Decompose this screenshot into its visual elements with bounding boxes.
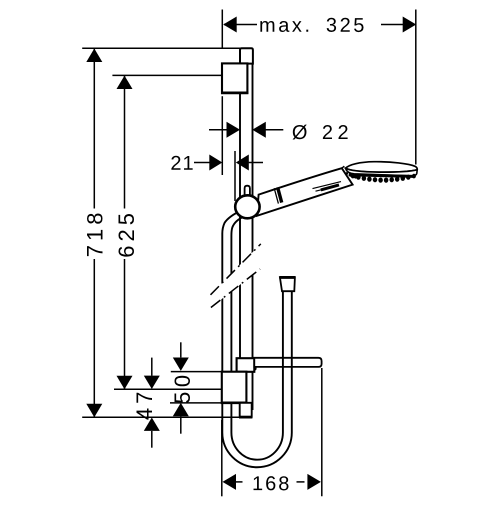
break mark dash-dot line lower	[211, 269, 260, 308]
extension line 168 left	[221, 420, 223, 496]
extension line wall plane (top)	[221, 10, 223, 49]
dimension max. 325 lines	[224, 24, 257, 26]
glide bar (168 shelf arm)	[254, 358, 321, 367]
shower hose (outer contour: left tube, U-turn, right tube)	[222, 210, 291, 468]
extension line knob left edge	[234, 151, 236, 201]
holder knob	[235, 195, 259, 218]
wall bracket top	[222, 63, 247, 93]
head neck notch	[342, 166, 345, 168]
dimension 50	[170, 342, 222, 433]
handle joint band	[274, 188, 278, 203]
dimension 47	[151, 358, 153, 448]
neck shadow wedge	[349, 173, 360, 179]
shower head side band	[346, 168, 418, 176]
extension line right at shower head	[415, 10, 417, 165]
shower head face plate (top)	[346, 162, 418, 172]
spray face nozzle row	[352, 175, 414, 177]
handle streaks near head	[313, 182, 342, 189]
hand shower handle	[257, 168, 353, 216]
rail top end cap	[240, 48, 253, 63]
rail bottom end cap	[240, 403, 252, 417]
dimension 718 arrowheads	[86, 49, 102, 63]
wall bracket bottom	[222, 372, 247, 403]
dimension 47 label	[132, 388, 157, 420]
extension line 718 bottom	[82, 416, 240, 418]
holder pin on knob	[245, 186, 250, 200]
extension line 625 top	[112, 74, 221, 76]
extension line 168 right (from bar end)	[321, 368, 323, 496]
shower hose (inner contour)	[231, 216, 283, 460]
extension line C (bracket bottom, left)	[170, 402, 222, 404]
svg-text:Ø 22: Ø 22	[292, 122, 353, 144]
head pivot dot	[345, 172, 348, 175]
extension line 625/47 bottom (line B)	[114, 388, 222, 390]
extension line wall plane (middle)	[221, 96, 223, 175]
svg-text:625: 625	[114, 209, 139, 258]
dimension max. 325 arrowheads	[223, 17, 237, 33]
dimension 625 line	[124, 76, 126, 209]
dimension 718 line	[93, 49, 95, 209]
dimension Ø 22	[209, 129, 283, 131]
svg-text:168: 168	[252, 473, 291, 495]
svg-text:21: 21	[170, 153, 194, 175]
dimension 50 label	[170, 370, 195, 403]
hose end fitting (conical nut)	[280, 277, 295, 291]
dimension 718 label	[82, 209, 107, 258]
rail break mark (white band)	[211, 244, 261, 308]
slider block (bar mount)	[237, 358, 255, 372]
extension line A (bracket top, left)	[171, 371, 222, 373]
break mark dash-dot line upper	[211, 244, 261, 295]
bar lower step	[254, 367, 256, 370]
extension line 718 top	[82, 47, 240, 49]
svg-text:718: 718	[82, 209, 107, 258]
dimension 625 label	[114, 209, 139, 258]
svg-text:max. 325: max. 325	[259, 15, 367, 37]
dimension 168	[222, 368, 322, 496]
svg-text:47: 47	[132, 388, 157, 420]
svg-text:50: 50	[170, 370, 195, 403]
dimension 625 arrowheads	[117, 76, 133, 89]
shower rail (vertical bar)	[240, 60, 253, 410]
